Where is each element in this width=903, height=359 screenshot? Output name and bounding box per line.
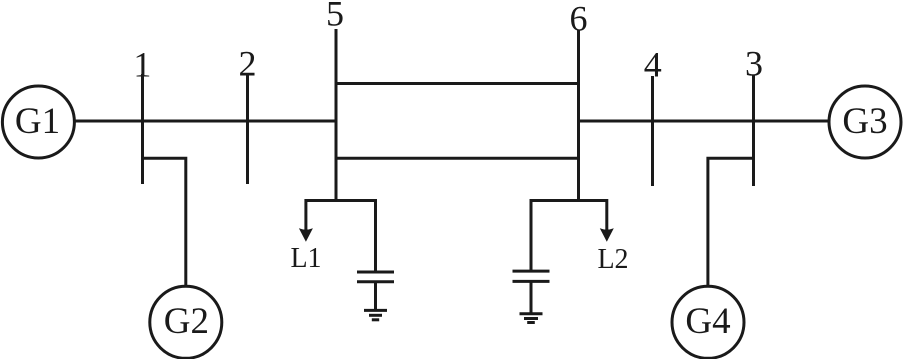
svg-text:L2: L2 [597,244,628,275]
ground under C1 [364,310,387,319]
generator G2 [150,286,222,358]
wire bus 3 to G4 [708,158,754,286]
wire junction under bus 6 [531,199,607,202]
svg-text:3: 3 [745,44,763,84]
wire load L1 drop [304,199,307,233]
transmission line 5-6 lower [336,157,579,160]
svg-text:G4: G4 [685,301,730,342]
svg-text:2: 2 [239,44,257,84]
svg-text:5: 5 [326,0,344,34]
capacitor C2 [513,271,550,313]
generator G4 [672,286,744,358]
capacitor C1 [357,272,394,310]
bus 3 [752,75,755,186]
bus 1 [141,74,144,184]
wire capacitor C1 drop [374,199,377,272]
bus 6 [577,30,580,202]
svg-text:6: 6 [570,0,588,39]
wire bus 1 to G2 [143,158,186,286]
arrowhead load L2 [600,228,614,242]
svg-text:4: 4 [644,45,662,85]
svg-text:L1: L1 [290,243,321,274]
arrowhead load L1 [299,228,313,242]
bus 2 [246,74,249,184]
generator G1 [2,86,74,158]
wire capacitor C2 drop [530,199,533,271]
bus 5 [335,29,338,202]
ground under C2 [520,314,543,323]
svg-text:G3: G3 [842,101,887,142]
wire load L2 drop [605,199,608,233]
generator G3 [829,86,901,158]
wire junction under bus 5 [306,199,376,202]
wire bus 6 to G3 [579,120,830,123]
svg-text:1: 1 [133,45,151,85]
transmission line 5-6 upper [336,82,579,85]
wire G1 to bus 5 [74,120,336,123]
svg-text:G2: G2 [164,301,209,342]
svg-text:G1: G1 [15,101,60,142]
bus 4 [651,76,654,186]
